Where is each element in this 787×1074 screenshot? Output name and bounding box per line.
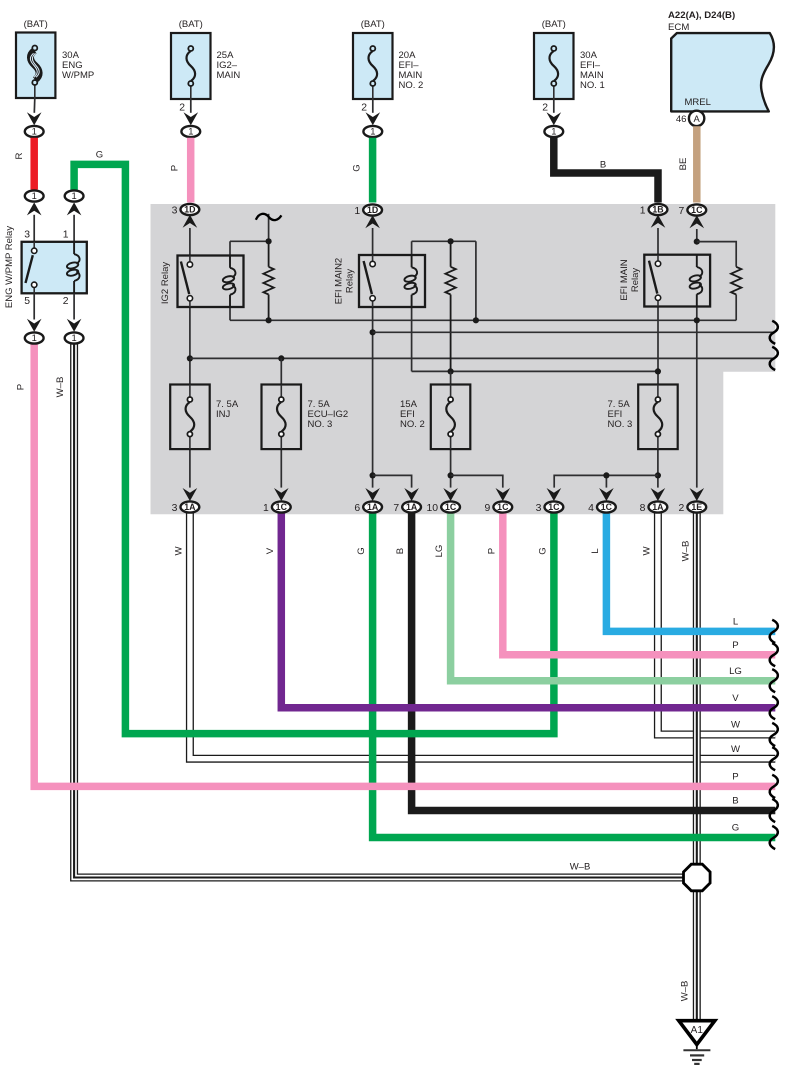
wire W from connector 3 1A	[190, 513, 775, 759]
wire: relay coil ground bus (y=320) to 1E column	[230, 319, 697, 321]
svg-text:5: 5	[24, 296, 30, 307]
wire: EFI MAIN coil bottom / 1E column	[696, 307, 698, 488]
label 7.5A INJ	[216, 399, 239, 420]
label V at right exit	[732, 693, 739, 704]
svg-text:3: 3	[24, 230, 30, 241]
fuse 20A EFI-MAIN NO.2	[353, 33, 393, 99]
svg-text:1D: 1D	[367, 205, 378, 215]
svg-text:1: 1	[188, 126, 193, 137]
wire W from connector 8 1A	[658, 513, 775, 735]
label pin 3	[24, 230, 30, 241]
connector 1A pin 6	[354, 488, 382, 514]
wire R (fuse to relay)	[30, 138, 38, 190]
label G wire	[537, 547, 548, 554]
connector 1E pin 2	[679, 488, 707, 514]
label P pin5 wire	[16, 384, 27, 390]
svg-text:1A: 1A	[184, 502, 196, 512]
terminal A pin 46	[676, 111, 704, 126]
connector 1A pin 3	[172, 488, 200, 514]
svg-text:1C: 1C	[548, 502, 560, 512]
wire B from connector 7 1A	[412, 513, 776, 811]
svg-text:V: V	[265, 547, 276, 554]
wire: 15A fuse output down	[450, 449, 452, 488]
label W-B horizontal run	[570, 862, 591, 873]
node: 15A EFI NO.2 fuse feed junction	[448, 368, 454, 374]
label P wire	[486, 548, 497, 554]
wire: EFI MAIN2 coil bottom to y371 bus	[412, 307, 658, 371]
svg-text:G: G	[732, 823, 739, 834]
svg-text:W: W	[173, 546, 184, 556]
node: EFI MAIN2 loop to ground bus junction	[473, 317, 479, 323]
svg-text:(BAT): (BAT)	[542, 19, 566, 30]
label 15A EFI NO.2	[400, 399, 425, 430]
label G at right exit	[732, 823, 739, 834]
svg-text:BE: BE	[678, 158, 689, 171]
connector 1D pin 1	[354, 204, 382, 228]
wire: INJ fuse output down	[189, 449, 191, 488]
svg-text:2: 2	[179, 103, 185, 114]
label 7.5A ECU-IG2 NO.3	[308, 399, 349, 430]
off-page break at y=707.7	[770, 696, 778, 719]
label ECM	[668, 22, 689, 33]
wire: IG2 relay coil loop top to resistor, with off-page stub	[230, 214, 269, 256]
svg-text:W/PMP: W/PMP	[62, 70, 94, 81]
label pin 5	[24, 296, 30, 307]
relay EFI MAIN Relay	[644, 255, 710, 307]
label pin 2 fuse3	[361, 103, 367, 114]
svg-text:G: G	[356, 547, 367, 554]
svg-text:1: 1	[640, 205, 646, 216]
label B wire	[395, 548, 406, 554]
label R	[14, 152, 25, 159]
svg-text:1A: 1A	[367, 502, 379, 512]
arrow into connector 1 fuse3	[366, 112, 381, 125]
wire: 15A EFI NO.2 fuse feed	[450, 371, 452, 384]
label (BAT) 4	[542, 19, 566, 30]
svg-text:(BAT): (BAT)	[24, 19, 48, 30]
relay block (engine room R/B) gray background	[151, 204, 776, 514]
label A22(A), D24(B)	[668, 10, 735, 21]
wire: bus A (EFI MAIN2 output) to right edge	[373, 331, 776, 333]
fuse 7.5A EFI NO.3	[638, 385, 678, 450]
connector 1 (relay pin2 bottom)	[65, 319, 84, 344]
wire fuse4 to connector	[553, 99, 555, 113]
svg-text:1C: 1C	[497, 502, 509, 512]
svg-text:1: 1	[32, 190, 37, 201]
svg-text:2: 2	[63, 296, 69, 307]
label 7.5A EFI NO.3	[608, 399, 633, 430]
svg-text:1: 1	[32, 126, 37, 137]
svg-text:A: A	[693, 113, 700, 124]
svg-text:ENG W/PMP Relay: ENG W/PMP Relay	[4, 226, 15, 308]
svg-text:G: G	[352, 164, 363, 171]
svg-text:6: 6	[354, 503, 360, 514]
off-page break at y=332.3	[770, 321, 778, 344]
label P fuse2	[170, 165, 181, 171]
wire: EFI MAIN2 switch output down	[372, 307, 374, 488]
label MREL	[685, 97, 711, 108]
node: ECU-IG2 fuse feed junction	[278, 355, 284, 361]
connector 1C pin 4	[588, 488, 616, 514]
node: W-B splice junction (octagon)	[684, 864, 711, 891]
wire relay pin5 lead	[33, 293, 35, 319]
svg-text:1: 1	[32, 332, 37, 343]
relay IG2 Relay	[178, 256, 244, 308]
label P at right exit	[732, 772, 738, 783]
svg-text:W–B: W–B	[680, 541, 691, 562]
svg-text:W–B: W–B	[570, 862, 591, 873]
connector 1 (fuse2)	[181, 126, 200, 137]
connector 1A pin 8	[640, 488, 668, 514]
connector 1B pin 1	[640, 204, 668, 228]
wire fuse2 to connector	[190, 99, 192, 113]
wire fuse1 to connector	[33, 98, 36, 113]
wire: 1D to EFI MAIN2 relay switch	[372, 228, 374, 255]
svg-text:2: 2	[542, 103, 548, 114]
svg-text:46: 46	[676, 114, 687, 125]
svg-text:B: B	[395, 548, 406, 554]
off-page break tilde above IG2 resistor	[256, 214, 282, 220]
label W&#8211;B wire	[680, 541, 691, 562]
svg-text:P: P	[170, 165, 181, 171]
wire L from connector 4 1C	[606, 513, 775, 632]
svg-text:7: 7	[393, 503, 399, 514]
label 30A EFI-MAIN NO.1	[580, 50, 605, 91]
label pin 2 fuse2	[179, 103, 185, 114]
wire: branch to connectors 3 1C and 4 1C	[554, 475, 658, 487]
wire P from ENG W/PMP relay pin 5	[34, 344, 775, 786]
svg-text:W: W	[641, 546, 652, 556]
svg-text:EFI MAIN: EFI MAIN	[619, 259, 630, 300]
wire: 1D to IG2 relay switch	[189, 228, 191, 256]
wire: bus B (IG2 output) across block to right edge	[190, 357, 775, 359]
svg-text:1: 1	[63, 230, 69, 241]
wire P (fuse2 to 1D)	[187, 138, 195, 203]
svg-text:NO. 3: NO. 3	[608, 419, 633, 430]
connector 1C pin 10	[427, 488, 460, 514]
wire B (fuse4 to 1B)	[554, 138, 658, 203]
svg-text:Relay: Relay	[630, 268, 641, 293]
svg-text:W–B: W–B	[680, 981, 691, 1002]
svg-text:1C: 1C	[691, 205, 703, 215]
svg-text:P: P	[486, 548, 497, 554]
connector 1 (fuse1)	[25, 126, 44, 137]
label B at right exit	[732, 796, 738, 807]
svg-text:P: P	[16, 384, 27, 390]
node: IG2 resistor top junction	[266, 238, 272, 244]
label pin 2	[63, 296, 69, 307]
label LG at right exit	[729, 666, 742, 677]
svg-text:B: B	[732, 796, 738, 807]
wire V from connector 1 1C	[281, 513, 775, 708]
node: y371 bus to EFI NO.3 junction	[655, 368, 661, 374]
svg-text:IG2 Relay: IG2 Relay	[160, 262, 171, 304]
off-page break at y=654.7	[770, 643, 778, 666]
svg-text:1C: 1C	[276, 502, 288, 512]
svg-text:A22(A), D24(B): A22(A), D24(B)	[668, 10, 735, 21]
off-page break at y=734.5	[770, 723, 778, 746]
svg-text:1A: 1A	[406, 502, 418, 512]
label 30A ENG W/PMP	[62, 50, 94, 81]
svg-text:LG: LG	[434, 545, 445, 558]
svg-text:1: 1	[370, 126, 375, 137]
fuse 7.5A ECU-IG2 NO.3	[262, 385, 302, 450]
label W at right exit	[731, 720, 741, 731]
svg-text:1: 1	[71, 190, 76, 201]
arrow into connector 1 fuse2	[184, 112, 199, 125]
node: 10-1C/9-1C split junction	[448, 472, 454, 478]
label B fuse4	[600, 160, 606, 171]
wire relay pin2 lead	[73, 293, 75, 319]
node: EFI MAIN2 output / bus A junction	[370, 329, 376, 335]
label pin 1	[63, 230, 69, 241]
wire: 1B to EFI MAIN relay switch	[657, 228, 659, 255]
label pin 2 fuse4	[542, 103, 548, 114]
label G top	[96, 150, 103, 161]
wire P from connector 9 1C	[503, 513, 776, 655]
svg-text:NO. 2: NO. 2	[399, 80, 424, 91]
svg-text:7: 7	[679, 206, 685, 217]
label 20A EFI-MAIN NO.2	[399, 50, 424, 91]
off-page break at y=837.5	[770, 826, 778, 849]
wire G (fuse3 to 1D)	[369, 138, 377, 203]
resistor R-MAIN	[731, 267, 741, 295]
connector 1C pin 1	[263, 488, 291, 514]
wire relay pin3 lead	[33, 215, 35, 242]
wire: EFI MAIN switch output to EFI NO.3 fuse	[657, 307, 659, 385]
arrow into connector 1 fuse4	[547, 112, 562, 125]
svg-text:LG: LG	[729, 666, 742, 677]
svg-text:(BAT): (BAT)	[361, 19, 385, 30]
svg-text:1C: 1C	[601, 502, 613, 512]
svg-text:3: 3	[536, 503, 542, 514]
svg-text:1C: 1C	[445, 502, 457, 512]
label ENG W/PMP Relay	[4, 226, 15, 308]
wire: EFI NO.3 fuse output down	[657, 449, 659, 488]
fuse 30A EFI-MAIN NO.1	[534, 33, 574, 99]
svg-text:10: 10	[427, 503, 439, 514]
label P at right exit	[732, 640, 738, 651]
connector 1C pin 7	[679, 204, 707, 228]
fuse 7.5A INJ	[170, 385, 210, 450]
svg-text:MAIN: MAIN	[217, 70, 241, 81]
wire: branch to connector 7 1A	[373, 475, 412, 487]
node: coil ground bus to 1E junction	[694, 317, 700, 323]
node: EFI MAIN resistor loop top junction	[694, 239, 700, 245]
connector 1 (relay pin5 bottom)	[25, 319, 44, 344]
label G wire	[356, 547, 367, 554]
svg-text:Relay: Relay	[345, 269, 356, 294]
fuse 15A EFI NO.2	[431, 385, 471, 450]
svg-text:W: W	[731, 744, 741, 755]
connector 1 (relay pin3 top)	[25, 190, 44, 215]
label W at right exit	[731, 744, 741, 755]
svg-text:8: 8	[640, 503, 646, 514]
wire: branch to connector 9 1C	[451, 475, 503, 487]
svg-text:P: P	[732, 640, 738, 651]
svg-text:2: 2	[361, 103, 367, 114]
off-page break at y=680.7	[770, 669, 778, 692]
off-page break at y=810.5	[770, 799, 778, 822]
svg-text:MREL: MREL	[685, 97, 711, 108]
svg-text:1: 1	[551, 126, 556, 137]
wire: IG2 coil bottom to ground bus	[229, 307, 231, 320]
fuse 30A ENG W/PMP (fusible link)	[16, 33, 55, 99]
connector 1 (fuse4)	[544, 126, 563, 137]
ground A1	[679, 1021, 715, 1064]
off-page break at y=758.7	[770, 747, 778, 770]
svg-text:W–B: W–B	[55, 377, 66, 398]
connector 1A pin 7	[393, 488, 421, 514]
fuse 25A IG2-MAIN	[171, 33, 211, 99]
svg-text:1: 1	[71, 332, 76, 343]
wire: IG2 relay switch output to INJ fuse	[189, 307, 191, 385]
svg-text:B: B	[600, 160, 606, 171]
off-page break at y=631.4	[770, 620, 778, 643]
relay ENG W/PMP Relay	[22, 242, 87, 293]
label G fuse3	[352, 164, 363, 171]
wire W-B junction to ground	[693, 890, 701, 1022]
wire: EFI MAIN2 coil loop top	[412, 241, 476, 320]
node: 4-1C branch junction	[603, 472, 609, 478]
svg-text:3: 3	[172, 503, 178, 514]
label IG2 Relay	[160, 262, 171, 304]
wire: EFI MAIN coil top junction to 1C	[696, 229, 698, 242]
svg-text:W: W	[731, 720, 741, 731]
svg-text:1: 1	[354, 206, 360, 217]
wire BE (MREL to 1C)	[693, 126, 701, 202]
svg-text:EFI MAIN2: EFI MAIN2	[334, 258, 345, 304]
connector 1C pin 9	[485, 488, 513, 514]
svg-text:G: G	[537, 547, 548, 554]
svg-text:NO. 3: NO. 3	[308, 419, 333, 430]
wire W-B from connector 2 1E to junction	[693, 513, 701, 867]
node: EFI NO.3 output split junction	[655, 472, 661, 478]
node: IG2 resistor bottom junction	[266, 317, 272, 323]
node: 6-1A/7-1A split junction	[370, 472, 376, 478]
relay EFI MAIN2 Relay	[359, 255, 425, 307]
svg-text:R: R	[14, 152, 25, 159]
wire: bus B down to ECU-IG2 NO.3 fuse	[280, 358, 282, 384]
wire fuse3 to connector	[372, 99, 374, 113]
connector 1D pin 3	[172, 204, 200, 228]
svg-text:3: 3	[172, 205, 178, 216]
svg-text:1B: 1B	[652, 205, 663, 215]
svg-text:1D: 1D	[184, 205, 195, 215]
svg-text:ECM: ECM	[668, 22, 689, 33]
label (BAT) 2	[179, 19, 203, 30]
svg-text:L: L	[733, 617, 739, 628]
label W-B pin2 wire	[55, 377, 66, 398]
svg-text:2: 2	[679, 503, 685, 514]
svg-text:L: L	[590, 548, 601, 554]
connector 1C pin 3	[536, 488, 564, 514]
svg-text:(BAT): (BAT)	[179, 19, 203, 30]
off-page break at y=358.4	[770, 347, 778, 370]
svg-text:1E: 1E	[691, 502, 702, 512]
wire G from connector 3 1C to ENG W/PMP relay coil	[74, 164, 554, 733]
wire G from connector 6 1A	[373, 513, 776, 838]
svg-text:A1: A1	[691, 1025, 704, 1036]
label EFI MAIN Relay	[619, 259, 641, 300]
svg-text:G: G	[96, 150, 103, 161]
node: EFI MAIN2 resistor top junction	[448, 238, 454, 244]
wire W-B from ENG W/PMP relay pin 2 to junction	[74, 344, 684, 878]
wire relay pin1 lead	[73, 215, 75, 242]
label W wire	[641, 546, 652, 556]
svg-text:P: P	[732, 772, 738, 783]
label W wire	[173, 546, 184, 556]
label W-B ground run	[680, 981, 691, 1002]
label EFI MAIN2 Relay	[334, 258, 356, 304]
ECM box	[671, 33, 774, 111]
wire: ECU-IG2 fuse output down	[280, 449, 282, 488]
label LG wire	[434, 545, 445, 558]
node: IG2 switch output / bus B junction	[187, 355, 193, 361]
arrow into connector 1	[27, 112, 42, 125]
svg-text:9: 9	[485, 503, 491, 514]
label (BAT) 1	[24, 19, 48, 30]
resistor R-IG2	[263, 241, 273, 320]
connector 1 (fuse3)	[363, 126, 382, 137]
label V wire	[265, 547, 276, 554]
svg-text:4: 4	[588, 503, 594, 514]
label L at right exit	[733, 617, 739, 628]
connector 1 (relay pin1 top)	[65, 190, 84, 215]
label (BAT) 3	[361, 19, 385, 30]
svg-text:1A: 1A	[652, 502, 664, 512]
svg-text:INJ: INJ	[216, 409, 231, 420]
svg-text:NO. 2: NO. 2	[400, 419, 425, 430]
wire: EFI MAIN resistor loop	[697, 242, 736, 321]
off-page break at y=786.4	[770, 775, 778, 798]
resistor R-MAIN2	[445, 241, 455, 371]
label 25A IG2-MAIN	[217, 50, 241, 81]
label BE	[678, 158, 689, 171]
label L wire	[590, 548, 601, 554]
svg-text:V: V	[732, 693, 739, 704]
svg-text:NO. 1: NO. 1	[580, 80, 605, 91]
svg-text:1: 1	[263, 503, 269, 514]
wire LG from connector 10 1C	[451, 513, 776, 681]
